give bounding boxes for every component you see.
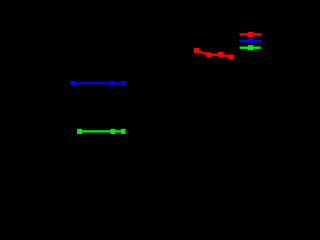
- legend green marker: [248, 45, 253, 50]
- red series marker 2: [206, 52, 211, 57]
- green series marker 1: [77, 129, 82, 134]
- legend blue marker: [248, 39, 253, 44]
- legend red marker: [248, 32, 253, 37]
- green series line: [80, 130, 124, 132]
- legend blue sample line: [240, 40, 262, 42]
- red series line: [197, 51, 232, 58]
- blue series marker 1: [71, 81, 76, 86]
- blue series marker 2: [110, 81, 115, 86]
- blue series line: [73, 82, 123, 84]
- red series marker 3: [218, 52, 223, 57]
- chart plot area (black background, axis text invisible): [0, 0, 280, 197]
- legend red sample line: [240, 33, 262, 35]
- green series marker 3: [121, 129, 126, 134]
- red series marker 4: [228, 54, 233, 59]
- legend green sample line: [240, 47, 261, 49]
- blue series marker 3: [121, 81, 126, 86]
- green series marker 2: [110, 129, 115, 134]
- red series marker 1: [194, 48, 199, 53]
